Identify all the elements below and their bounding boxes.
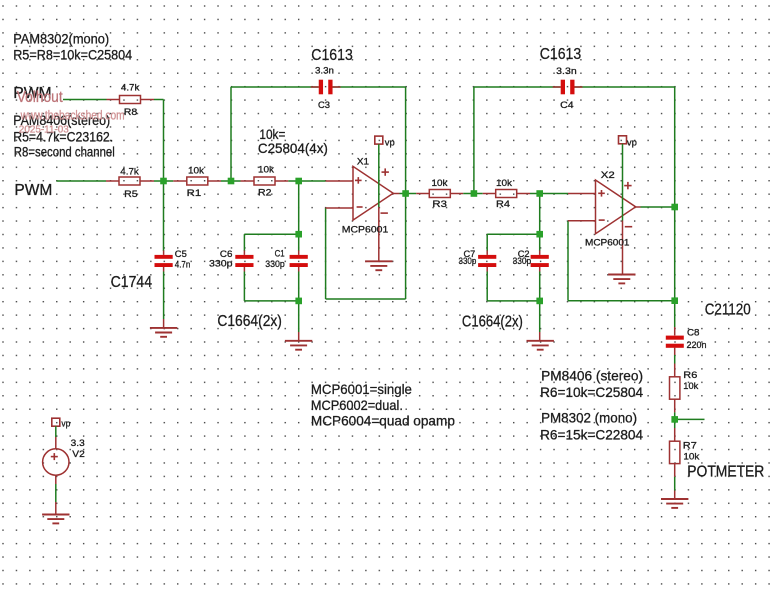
svg-text:vp: vp: [627, 138, 637, 149]
svg-text:330p: 330p: [265, 259, 285, 270]
svg-text:vp: vp: [385, 137, 395, 148]
svg-text:330p: 330p: [513, 256, 532, 267]
svg-text:R5=R8=10k=C25804: R5=R8=10k=C25804: [13, 46, 132, 62]
svg-text:C1744: C1744: [111, 274, 153, 291]
svg-text:PWM: PWM: [14, 182, 52, 199]
svg-text:PM8302 (mono): PM8302 (mono): [541, 410, 637, 426]
svg-text:10k: 10k: [683, 381, 698, 392]
svg-text:C8: C8: [687, 327, 700, 338]
svg-text:3.3n: 3.3n: [556, 66, 577, 77]
svg-text:Volhout: Volhout: [17, 89, 63, 106]
svg-text:2025-11-03: 2025-11-03: [19, 123, 69, 135]
svg-text:3.3: 3.3: [71, 438, 85, 449]
svg-text:4.7n: 4.7n: [175, 260, 191, 271]
svg-text:R3: R3: [432, 199, 447, 210]
svg-text:R6=10k=C25804: R6=10k=C25804: [540, 384, 643, 400]
svg-text:C25804(4x): C25804(4x): [258, 140, 328, 156]
svg-text:10k: 10k: [496, 178, 512, 189]
svg-text:vp: vp: [61, 418, 70, 429]
svg-text:R8: R8: [124, 107, 138, 118]
svg-text:MCP6001=single: MCP6001=single: [311, 381, 412, 397]
svg-text:R1: R1: [187, 188, 202, 199]
svg-text:C1664(2x): C1664(2x): [217, 313, 282, 330]
svg-text:R5: R5: [124, 189, 138, 200]
svg-text:C5: C5: [175, 249, 187, 260]
svg-text:PAM8302(mono): PAM8302(mono): [13, 31, 109, 47]
svg-text:PM8406 (stereo): PM8406 (stereo): [541, 368, 643, 384]
svg-text:C1613: C1613: [311, 47, 353, 64]
svg-text:10k: 10k: [258, 165, 274, 176]
svg-text:POTMETER: POTMETER: [687, 463, 764, 480]
svg-text:R2: R2: [258, 187, 272, 198]
svg-text:C1613: C1613: [540, 46, 582, 63]
svg-text:C3: C3: [318, 100, 330, 111]
svg-text:330p: 330p: [209, 259, 233, 270]
svg-text:C1664(2x): C1664(2x): [462, 314, 523, 331]
svg-text:C4: C4: [560, 100, 574, 111]
svg-text:C1: C1: [275, 248, 285, 259]
svg-text:220n: 220n: [687, 340, 707, 351]
svg-text:330p: 330p: [459, 256, 477, 267]
svg-text:10k: 10k: [683, 451, 699, 462]
svg-text:C21120: C21120: [705, 301, 751, 318]
svg-text:MCP6002=dual.: MCP6002=dual.: [311, 397, 403, 413]
svg-text:10k: 10k: [432, 178, 448, 189]
svg-text:10k: 10k: [188, 165, 204, 176]
svg-text:MCP6001: MCP6001: [585, 238, 630, 249]
svg-text:R6: R6: [683, 370, 697, 381]
svg-text:MCP6001: MCP6001: [342, 224, 389, 235]
svg-text:www.thebackshed.com: www.thebackshed.com: [20, 108, 125, 122]
svg-text:R8=second channel: R8=second channel: [14, 143, 115, 159]
svg-text:3.3n: 3.3n: [315, 65, 334, 76]
svg-text:R4: R4: [496, 199, 511, 210]
svg-text:R7: R7: [683, 440, 697, 451]
svg-text:V2: V2: [72, 449, 85, 460]
svg-text:MCP6004=quad opamp: MCP6004=quad opamp: [311, 413, 455, 429]
svg-text:4.7k: 4.7k: [120, 166, 139, 177]
svg-text:X2: X2: [601, 170, 615, 181]
svg-text:X1: X1: [357, 156, 369, 167]
svg-text:R6=15k=C22804: R6=15k=C22804: [540, 427, 643, 443]
svg-text:4.7k: 4.7k: [121, 83, 140, 94]
